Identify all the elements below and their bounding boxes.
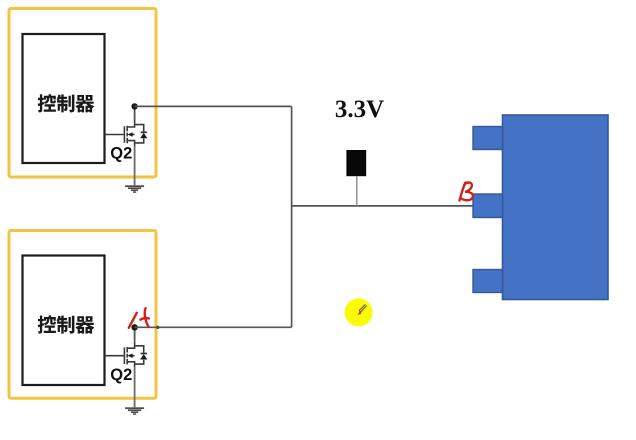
wire: 3.3V stub to middle run — [356, 176, 358, 206]
node: bottom output junction dot — [131, 324, 137, 330]
controller block 2: label 控制器 — [38, 315, 95, 333]
controller block 1: box outline — [23, 34, 105, 163]
svg-text:Q2: Q2 — [110, 145, 132, 163]
wire: bottom output horizontal run — [135, 326, 292, 328]
ground symbol (top) — [125, 185, 144, 193]
svg-text:3.3V: 3.3V — [335, 96, 384, 123]
annotation: red handwritten B — [460, 183, 473, 201]
transistor Q2 (top N-MOSFET with body diode) — [105, 120, 148, 146]
transistor Q2 (bottom N-MOSFET with body diode) — [105, 341, 148, 367]
connector J1: pin tab 2 — [473, 194, 503, 218]
wire: vertical bus joining both outputs — [291, 106, 293, 327]
node: top output junction dot — [131, 103, 137, 109]
wire: top source down to ground — [134, 146, 136, 185]
controller block 1: orange highlight frame — [9, 9, 156, 178]
wire: top drain to node — [134, 106, 136, 120]
connector J1: pin tab 3 — [473, 270, 503, 293]
controller block 2: orange highlight frame — [9, 231, 156, 399]
connector J1: pin tab 1 — [473, 127, 503, 150]
wire: bottom source down to ground — [134, 367, 136, 407]
wire: top output horizontal run — [135, 105, 292, 107]
annotation: red handwritten A — [129, 308, 149, 328]
connector J1: blue body — [503, 115, 609, 300]
controller block 2: box outline — [23, 256, 105, 386]
3.3V supply block (black rectangle) — [346, 150, 366, 176]
ground symbol (bottom) — [125, 407, 144, 415]
controller block 1: label 控制器 — [38, 94, 95, 112]
cursor: yellow highlight circle with pencil — [345, 298, 373, 326]
node: small junction dot on bottom wire — [156, 326, 159, 329]
wire: bottom drain to node — [134, 327, 136, 341]
wire: middle horizontal run to connector — [292, 205, 474, 207]
svg-text:Q2: Q2 — [110, 366, 132, 384]
